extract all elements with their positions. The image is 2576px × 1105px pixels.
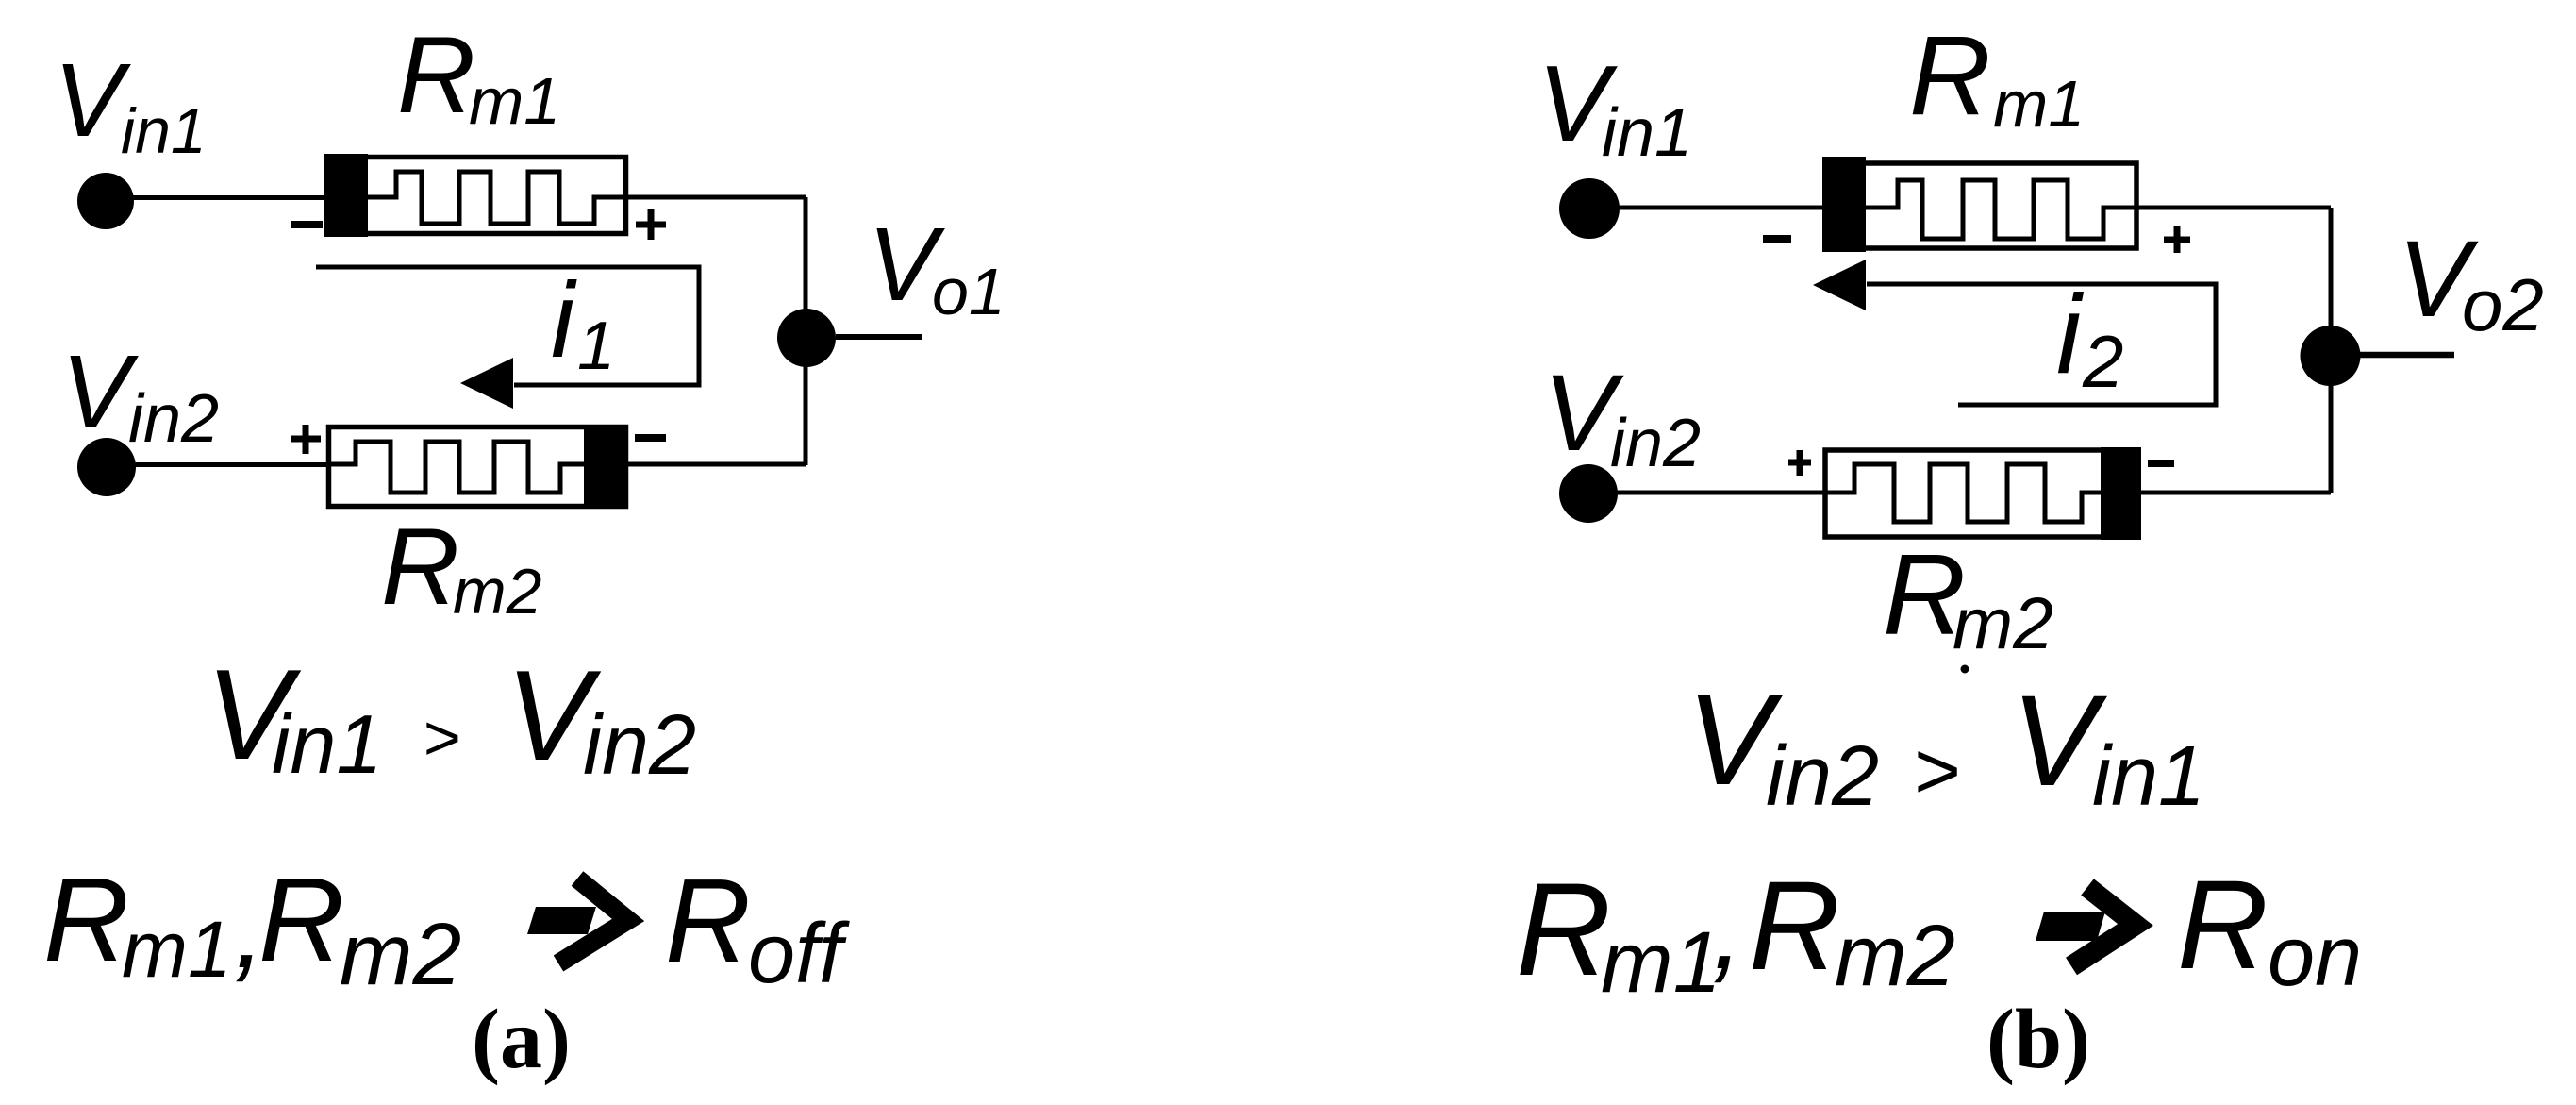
label Vo2 (b) xyxy=(2398,219,2544,346)
wire Vo1 stub (a) xyxy=(836,334,922,340)
memristor Rm2 (b) xyxy=(1824,447,2141,540)
svg-text:(a): (a) xyxy=(472,993,571,1086)
svg-text:m2: m2 xyxy=(453,556,541,628)
svg-text:>: > xyxy=(1913,727,1960,816)
arrowhead i2 (b) xyxy=(1813,260,1866,310)
plus sign at Rm2 left (a) xyxy=(291,425,321,454)
label Vin1 (b) xyxy=(1537,44,1692,171)
svg-text:m2: m2 xyxy=(1953,583,2053,664)
svg-text:m2: m2 xyxy=(1835,908,1955,1004)
text Vin1 > Vin2 (a) xyxy=(206,643,696,793)
text Rm1,Rm2 (a) xyxy=(43,853,461,1003)
label Rm2 (b) xyxy=(1883,530,2053,664)
svg-text:on: on xyxy=(2268,910,2362,1004)
label Vin1 (a) xyxy=(54,42,207,167)
plus sign at Rm1 right (b) xyxy=(2164,226,2190,253)
svg-text:in1: in1 xyxy=(2092,729,2205,824)
svg-text:m1: m1 xyxy=(1601,914,1721,1011)
svg-text:m1: m1 xyxy=(1993,67,2085,141)
text Ron (b) xyxy=(2177,855,2362,1004)
plus sign at Rm1 right (a) xyxy=(636,209,666,240)
svg-text:R: R xyxy=(43,853,129,986)
svg-text:R: R xyxy=(397,15,475,136)
svg-text:(b): (b) xyxy=(1986,993,2090,1086)
wire Rm1 to node column (b) xyxy=(2136,206,2331,210)
wire Vin2 to Rm2 (b) xyxy=(1588,491,1826,495)
label Vo1 (a) xyxy=(868,207,1005,328)
svg-text:,: , xyxy=(1712,866,1743,993)
memristor Rm1 (b) xyxy=(1822,157,2137,252)
wire Rm1 to node column (a) xyxy=(623,195,806,200)
text Rm1,Rm2 (b) xyxy=(1516,855,1955,1011)
arrow glyph (b) xyxy=(2036,887,2136,966)
wire Vin1 to Rm1 (a) xyxy=(106,195,326,200)
svg-text:in2: in2 xyxy=(128,381,219,457)
wire i1 loop (a) xyxy=(316,267,699,385)
minus sign at Rm1 left (b) xyxy=(1763,235,1791,243)
svg-text:V: V xyxy=(61,334,139,450)
svg-text:in1: in1 xyxy=(121,95,207,167)
label Rm2 (a) xyxy=(381,507,541,628)
svg-text:R: R xyxy=(2177,855,2269,996)
svg-text:in2: in2 xyxy=(583,698,696,793)
minus sign at Rm2 right (a) xyxy=(635,434,666,442)
svg-text:R: R xyxy=(1516,855,1611,1003)
svg-text:o1: o1 xyxy=(932,255,1005,328)
svg-text:2: 2 xyxy=(2082,320,2123,403)
label Rm1 (a) xyxy=(397,15,560,138)
svg-text:i: i xyxy=(2056,272,2085,397)
wire Vin1 to Rm1 (b) xyxy=(1589,206,1824,210)
text Vin2 > Vin1 (b) xyxy=(1687,668,2205,824)
minus sign at Rm2 right (b) xyxy=(2148,460,2174,467)
minus sign at Rm1 left (a) xyxy=(291,221,323,228)
svg-text:V: V xyxy=(54,42,131,159)
stray dot artifact (b) xyxy=(1961,665,1969,674)
svg-text:>: > xyxy=(423,702,460,774)
memristor Rm2 (a) xyxy=(328,426,628,508)
wire Vo2 stub (b) xyxy=(2360,352,2454,359)
svg-text:in2: in2 xyxy=(1766,729,1879,824)
wire Rm2 to node column (b) xyxy=(2139,491,2331,495)
svg-text:in1: in1 xyxy=(272,697,382,791)
wire Rm2 to node column (a) xyxy=(626,462,806,467)
svg-text:R: R xyxy=(665,854,751,987)
text Roff (a) xyxy=(665,854,850,1001)
label Vin2 (b) xyxy=(1543,353,1701,481)
node Vo1 (a) xyxy=(777,309,836,367)
wire i2 loop (b) xyxy=(1867,284,2216,405)
arrowhead i1 (a) xyxy=(460,358,513,409)
svg-text:in1: in1 xyxy=(1602,95,1692,171)
wire vertical right column (a) xyxy=(804,197,808,465)
svg-text:R: R xyxy=(1909,12,1991,139)
svg-text:R: R xyxy=(1749,856,1840,996)
wire Vin2 to Rm2 (a) xyxy=(107,462,330,467)
svg-text:o2: o2 xyxy=(2462,263,2544,346)
label i2 (b) xyxy=(2056,272,2123,403)
svg-text:1: 1 xyxy=(577,309,615,384)
arrow glyph (a) xyxy=(527,879,628,963)
memristor Rm1 (a) xyxy=(324,154,626,237)
node Vin1 (a) xyxy=(77,173,134,229)
node Vo2 (b) xyxy=(2301,326,2361,386)
wire vertical right column (b) xyxy=(2329,208,2334,493)
svg-text:off: off xyxy=(748,907,850,1001)
svg-text:R: R xyxy=(381,507,459,628)
svg-text:m2: m2 xyxy=(340,905,461,1003)
node Vin2 (a) xyxy=(77,438,136,496)
label Vin2 (a) xyxy=(61,334,219,457)
plus sign at Rm2 left (b) xyxy=(1788,450,1811,476)
svg-text:in2: in2 xyxy=(1610,406,1701,481)
svg-text:i: i xyxy=(551,260,577,379)
svg-text:m1: m1 xyxy=(122,905,232,994)
node Vin1 (b) xyxy=(1559,178,1620,239)
label i1 (a) xyxy=(551,260,615,384)
label Rm1 (b) xyxy=(1909,12,2085,141)
svg-text:R: R xyxy=(258,853,344,986)
svg-text:m1: m1 xyxy=(469,64,560,138)
node Vin2 (b) xyxy=(1559,464,1618,523)
